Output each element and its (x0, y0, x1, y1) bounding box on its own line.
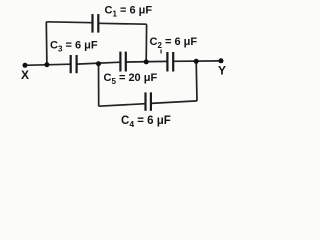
svg-text:C1 = 6 μF: C1 = 6 μF (105, 5, 153, 19)
node X (23, 63, 28, 68)
wire (98, 22, 146, 25)
svg-text:Y: Y (218, 64, 226, 78)
wire (46, 21, 92, 24)
capacitor C3 (71, 55, 77, 73)
capacitor C2 (167, 52, 173, 72)
node junction bottom-left (96, 61, 101, 66)
node junction top-left (44, 62, 49, 67)
wire (195, 61, 198, 101)
wire (151, 101, 197, 104)
svg-text:C5 = 20 μF: C5 = 20 μF (104, 72, 158, 86)
node Y (219, 58, 224, 63)
node junction bottom-right (194, 59, 199, 64)
wire (77, 62, 121, 64)
wire (173, 60, 221, 62)
svg-text:C3 = 6 μF: C3 = 6 μF (50, 40, 98, 54)
wire (126, 60, 168, 63)
wire (25, 64, 71, 65)
wire (98, 64, 100, 106)
node junction top-right (144, 59, 149, 64)
svg-text:X: X (21, 68, 29, 82)
svg-text:C4 = 6 μF: C4 = 6 μF (121, 115, 171, 129)
wire (145, 24, 147, 62)
wire (45, 22, 48, 65)
capacitor C4 (146, 92, 151, 110)
capacitor C1 (93, 14, 99, 32)
stray mark (160, 50, 162, 54)
svg-text:C2 = 6 μF: C2 = 6 μF (150, 36, 198, 50)
wire (99, 104, 146, 107)
capacitor C5 (120, 52, 125, 72)
